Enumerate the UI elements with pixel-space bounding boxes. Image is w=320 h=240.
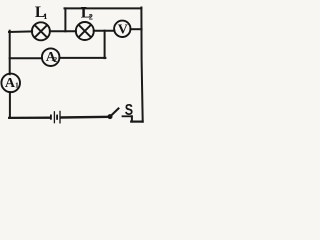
svg-text:2: 2 xyxy=(53,55,57,64)
wire bypass top horizontal xyxy=(65,7,142,9)
wire bypass vertical at node x65 xyxy=(64,8,66,31)
wire V to right edge xyxy=(130,28,141,30)
battery long plate 1 xyxy=(53,111,55,123)
wire left edge vertical xyxy=(9,31,11,74)
wire bottom left to battery xyxy=(9,117,49,120)
voltmeter U1 V xyxy=(114,21,130,37)
switch S node dot xyxy=(108,114,113,119)
svg-text:2: 2 xyxy=(89,12,93,21)
switch S lever xyxy=(110,108,119,117)
lamp L1 xyxy=(32,22,50,40)
battery short plate 2 xyxy=(56,115,58,120)
battery B1 xyxy=(51,111,60,124)
wire battery to switch xyxy=(61,116,108,119)
svg-text:S: S xyxy=(125,102,133,120)
ammeter A1 xyxy=(1,74,20,93)
wire L1 to L2 xyxy=(50,30,76,32)
wire right edge vertical xyxy=(141,8,142,122)
svg-text:1: 1 xyxy=(15,80,19,89)
wire top-left horizontal xyxy=(9,30,32,33)
wire A1 to bottom-left corner xyxy=(9,92,11,118)
switch S fixed contact (underline) xyxy=(122,115,133,117)
svg-text:1: 1 xyxy=(43,12,47,21)
wire A2 to tap corner xyxy=(59,57,105,59)
wire L2 to V xyxy=(94,30,115,32)
battery long plate 2 xyxy=(59,111,61,124)
wire switch contact jog down xyxy=(131,116,133,121)
ammeter A2 xyxy=(42,48,60,66)
background paper xyxy=(0,0,148,126)
wire tap vertical between L2 and V xyxy=(104,31,106,58)
svg-text:V: V xyxy=(118,23,128,38)
wire branch left to A2 xyxy=(10,57,42,59)
battery short plate 1 xyxy=(50,115,52,120)
lamp L2 xyxy=(76,22,94,40)
wire bottom-right to corner xyxy=(131,120,142,122)
